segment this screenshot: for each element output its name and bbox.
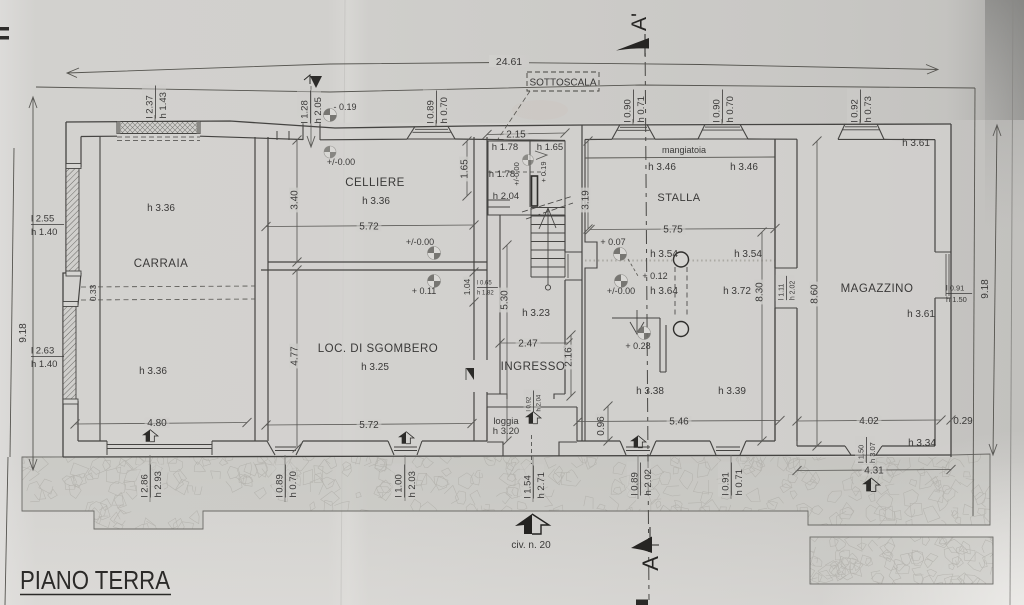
svg-text:0.96: 0.96 bbox=[596, 416, 607, 436]
svg-text:h 3.36: h 3.36 bbox=[139, 366, 167, 377]
svg-text:civ. n. 20: civ. n. 20 bbox=[511, 540, 551, 551]
south wall inner edge e bbox=[577, 440, 620, 442]
detached paved strip bottom-right tint bbox=[810, 537, 993, 584]
wall celliere-sgombero south face bbox=[261, 269, 487, 271]
boundary line far east bbox=[1010, 0, 1013, 605]
stalla west face bbox=[584, 139, 586, 230]
window W5 magazzino north (splayed opening) bbox=[838, 124, 884, 139]
opening label south window stalla bbox=[718, 461, 745, 496]
door stalla-magazzino jambs bbox=[775, 268, 797, 308]
opening label window W3 bbox=[620, 88, 647, 123]
entry arrow sgombero entry bbox=[398, 432, 414, 444]
wall sgombero-ingresso west face upper bbox=[473, 137, 475, 360]
door ingresso-stalla jambs bbox=[565, 252, 582, 280]
section line page-edge dash bbox=[636, 600, 648, 605]
svg-text:+ 0.12: + 0.12 bbox=[642, 271, 667, 281]
ingresso west face bbox=[499, 215, 501, 394]
opening label window W1 bbox=[142, 84, 169, 119]
carraia dashed beam lines bbox=[81, 286, 255, 300]
svg-text:+ 0.11: + 0.11 bbox=[412, 286, 437, 296]
wall celliere-sgombero north face bbox=[268, 261, 487, 263]
level datum datum 0.12 stalla bbox=[615, 275, 628, 288]
svg-text:h 1.40: h 1.40 bbox=[31, 227, 57, 238]
svg-text:h 3.54: h 3.54 bbox=[650, 249, 678, 260]
dimension 5.30 ingresso bbox=[499, 241, 512, 446]
carraia west face bbox=[99, 137, 101, 442]
bottom-right corner glare bbox=[820, 430, 1024, 605]
dimension 2.16 ingresso bbox=[563, 331, 576, 401]
opening label south door sgombero bbox=[391, 463, 418, 498]
north wall inner edge f bbox=[655, 138, 698, 140]
svg-text:h 2.04: h 2.04 bbox=[537, 394, 543, 411]
staircase break lines bbox=[522, 196, 573, 219]
svg-text:h 0.71: h 0.71 bbox=[636, 96, 647, 122]
level datum datum 0.07 stalla bbox=[614, 248, 627, 261]
svg-text:5.30: 5.30 bbox=[500, 290, 511, 310]
svg-text:1.04: 1.04 bbox=[462, 278, 472, 295]
north wall inner edge e bbox=[585, 138, 612, 140]
wall carraia-celliere east face bbox=[267, 137, 269, 441]
svg-text:l 1.28: l 1.28 bbox=[300, 100, 311, 123]
dimension 4.02 magazzino bbox=[793, 416, 946, 428]
svg-text:h 1.82: h 1.82 bbox=[477, 291, 494, 297]
understair wall stub bbox=[532, 176, 538, 206]
north wall inner edge h bbox=[884, 138, 935, 140]
loggia outline bbox=[487, 407, 577, 464]
svg-text:h 2.71: h 2.71 bbox=[536, 472, 547, 498]
exterior wall north outer edge bbox=[66, 121, 951, 128]
wall sgombero-ingresso east face lower bbox=[486, 392, 488, 441]
ground texture area outline bbox=[22, 454, 990, 529]
svg-text:l 2.55: l 2.55 bbox=[31, 214, 54, 225]
window W2 celliere north (splayed opening) bbox=[407, 127, 455, 140]
wall stalla-magazzino east face lower bbox=[796, 308, 798, 441]
stalla west lower jog bbox=[585, 230, 597, 441]
manger partition dashed bbox=[675, 267, 687, 318]
svg-text:CARRAIA: CARRAIA bbox=[134, 258, 189, 270]
section line A-A' bbox=[645, 34, 649, 600]
leader window W3 bbox=[632, 119, 634, 125]
svg-text:h 3.64: h 3.64 bbox=[650, 286, 678, 297]
svg-text:l 2.37: l 2.37 bbox=[145, 95, 156, 118]
wall stalla-magazzino east face upper bbox=[796, 139, 798, 268]
opening label south door stalla bbox=[627, 461, 654, 496]
svg-text:h 1.40: h 1.40 bbox=[31, 359, 57, 370]
svg-text:h 3.39: h 3.39 bbox=[718, 386, 746, 397]
svg-text:INGRESSO: INGRESSO bbox=[501, 361, 566, 373]
section arrow bottom bbox=[631, 537, 652, 554]
dimension 5.72 sgombero bbox=[262, 419, 477, 431]
svg-text:l 1.54: l 1.54 bbox=[523, 475, 534, 498]
svg-text:l 0.89: l 0.89 bbox=[275, 474, 286, 497]
svg-text:2.15: 2.15 bbox=[506, 130, 526, 141]
dimension 5.46 stalla bbox=[574, 416, 785, 428]
west wall inner edge lower bbox=[77, 401, 79, 441]
svg-text:h 0.73: h 0.73 bbox=[863, 96, 874, 122]
svg-text:- 0.19: - 0.19 bbox=[333, 102, 356, 112]
opening label south door magazzino bbox=[855, 436, 877, 464]
svg-text:24.61: 24.61 bbox=[496, 56, 522, 68]
faint pink smudge bbox=[512, 100, 568, 120]
opening label understair niche bbox=[477, 281, 498, 297]
svg-text:4.02: 4.02 bbox=[859, 416, 879, 427]
svg-text:A': A' bbox=[628, 13, 651, 31]
wall H1 west end cap bbox=[254, 262, 256, 270]
magazzino south door bbox=[845, 446, 882, 455]
wall V1 top jog bbox=[277, 131, 289, 140]
opening label window W2 bbox=[423, 89, 450, 124]
svg-text:h 0.70: h 0.70 bbox=[439, 97, 450, 123]
dimension 3.40 celliere bbox=[289, 136, 302, 267]
leader south door sgombero bbox=[404, 455, 406, 501]
column circle stalla bbox=[674, 252, 689, 267]
dimension 4.80 carraia bbox=[71, 418, 252, 430]
svg-text:+ 0.28: + 0.28 bbox=[625, 341, 650, 351]
svg-text:2.47: 2.47 bbox=[518, 339, 538, 350]
svg-text:+ 0.19: + 0.19 bbox=[539, 161, 548, 182]
south wall inner edge c bbox=[303, 440, 388, 442]
level datum datum 0.00 celliere top bbox=[324, 146, 336, 158]
dimension 2.15 sottoscala bbox=[483, 129, 570, 141]
svg-text:l 2.86: l 2.86 bbox=[140, 474, 151, 497]
boundary line north bbox=[36, 85, 975, 92]
wall sgombero-ingresso west face lower bbox=[473, 392, 475, 441]
manger partition walls bbox=[612, 318, 666, 372]
exterior wall west outer edge bbox=[63, 122, 66, 457]
svg-text:CELLIERE: CELLIERE bbox=[345, 177, 405, 189]
svg-text:+/-0.00: +/-0.00 bbox=[512, 162, 521, 186]
dimension 8.60 magazzino bbox=[809, 137, 822, 451]
svg-text:5.72: 5.72 bbox=[359, 420, 379, 431]
leader window W2 bbox=[435, 120, 437, 127]
svg-text:h 3.34: h 3.34 bbox=[908, 438, 936, 449]
magazzino south-west corner jog bbox=[796, 441, 798, 446]
window LW2 west hatched bbox=[63, 302, 78, 405]
boundary line west lower bbox=[5, 457, 8, 605]
dimension 2.47 ingresso bbox=[496, 338, 573, 350]
opening label door stalla-magazzino bbox=[776, 275, 797, 301]
dimension 5.72 celliere bbox=[262, 221, 479, 233]
svg-text:A: A bbox=[638, 556, 663, 571]
detached paved strip outline bbox=[810, 537, 993, 584]
north wall inner edge a bbox=[81, 135, 117, 137]
west wall inner edge mid bbox=[78, 273, 81, 305]
svg-text:h 2.04: h 2.04 bbox=[493, 191, 519, 202]
door D1 jambs bbox=[303, 123, 320, 140]
ground paving texture bbox=[799, 524, 1004, 595]
opening label window LW2 bbox=[31, 346, 64, 371]
svg-text:h 0.70: h 0.70 bbox=[725, 96, 736, 122]
south wall inner edge a bbox=[78, 440, 107, 442]
entry arrow carraia entry bbox=[142, 430, 158, 442]
svg-text:l 0.89: l 0.89 bbox=[426, 100, 437, 123]
wall ingresso-stalla east face bbox=[581, 125, 583, 441]
svg-text:PIANO TERRA: PIANO TERRA bbox=[20, 565, 171, 595]
svg-text:h 1.78: h 1.78 bbox=[492, 142, 518, 153]
opening label south window sgombero bbox=[272, 463, 299, 498]
svg-text:9.18: 9.18 bbox=[18, 323, 29, 343]
page edge shading top-right bbox=[985, 0, 1024, 230]
svg-text:h 3.72: h 3.72 bbox=[723, 286, 751, 297]
leader window W5 bbox=[859, 119, 861, 124]
title PIANO TERRA bbox=[20, 565, 171, 595]
entry arrow stalla entry bbox=[630, 436, 646, 448]
section bracket bottom bbox=[650, 527, 659, 545]
leader south door stalla bbox=[637, 455, 639, 499]
staircase up arrow bbox=[539, 208, 556, 290]
svg-text:h 3.36: h 3.36 bbox=[362, 196, 390, 207]
svg-text:SOTTOSCALA: SOTTOSCALA bbox=[529, 78, 596, 89]
opening label garage door bbox=[137, 463, 164, 498]
opening label window LW1 bbox=[31, 214, 64, 239]
south window sgombero (splayed) bbox=[267, 441, 303, 455]
svg-text:h 3.20: h 3.20 bbox=[493, 426, 519, 437]
dimension 24.61 overall bbox=[67, 55, 938, 78]
svg-text:h 2.02: h 2.02 bbox=[790, 281, 797, 301]
svg-text:h 3.23: h 3.23 bbox=[522, 308, 550, 319]
leader datum 0.12 bbox=[628, 259, 638, 276]
opening label south door loggia bbox=[520, 464, 547, 499]
svg-text:h 3.38: h 3.38 bbox=[636, 386, 664, 397]
svg-text:l 2.63: l 2.63 bbox=[31, 346, 54, 357]
dimension 9.18 west bbox=[18, 97, 37, 470]
south wall inner edge magazzino west bbox=[797, 445, 845, 447]
section arrow top bbox=[616, 38, 649, 51]
fold shadow line bbox=[341, 0, 345, 605]
exterior wall south outer edge bbox=[63, 455, 951, 457]
svg-text:h 2.05: h 2.05 bbox=[313, 97, 324, 123]
opening label window W4 bbox=[709, 88, 736, 123]
ground paving texture bbox=[9, 443, 1000, 538]
svg-text:h 3.46: h 3.46 bbox=[730, 162, 758, 173]
svg-text:+/-0.00: +/-0.00 bbox=[406, 237, 434, 247]
dimension 0.96 stalla door bbox=[596, 402, 613, 446]
svg-text:9.18: 9.18 bbox=[980, 279, 991, 299]
leader window W1 bbox=[154, 115, 156, 121]
open arrow right understair bbox=[535, 151, 547, 160]
dimension 4.31 magazzino south bbox=[793, 465, 956, 477]
level datum datum -0.19 bbox=[324, 109, 337, 122]
svg-text:h 3.07: h 3.07 bbox=[868, 442, 877, 463]
opening label door D1 bbox=[297, 89, 324, 124]
leader south window stalla bbox=[730, 455, 732, 499]
door sgombero-ingresso jamb marker bbox=[466, 368, 474, 380]
level datum datum 0.28 stalla low bbox=[638, 327, 651, 340]
svg-text:3.40: 3.40 bbox=[290, 190, 301, 210]
svg-text:+/-0.00: +/-0.00 bbox=[327, 157, 355, 167]
svg-text:5.75: 5.75 bbox=[663, 225, 683, 236]
opening label window east magazzino bbox=[946, 284, 972, 305]
svg-text:0.29: 0.29 bbox=[953, 416, 973, 427]
svg-text:l 0.92: l 0.92 bbox=[527, 396, 533, 411]
scan artifact bars top-left bbox=[0, 27, 9, 31]
svg-text:h 2.02: h 2.02 bbox=[643, 469, 654, 495]
svg-text:0.33: 0.33 bbox=[88, 284, 98, 301]
svg-text:+/-0.00: +/-0.00 bbox=[607, 286, 635, 296]
leader south door loggia bbox=[532, 457, 534, 502]
south door sgombero (splayed) bbox=[388, 441, 422, 455]
svg-text:h 3.54: h 3.54 bbox=[734, 249, 762, 260]
svg-text:l 0.90: l 0.90 bbox=[712, 99, 723, 122]
svg-text:h 3.61: h 3.61 bbox=[907, 309, 935, 320]
svg-text:h 2.03: h 2.03 bbox=[407, 471, 418, 497]
dimension 1.65 niche bbox=[459, 137, 472, 201]
svg-text:l 0.90: l 0.90 bbox=[623, 99, 634, 122]
window LW1 west hatched bbox=[66, 164, 81, 277]
wall ingresso-stalla west face upper bbox=[564, 215, 566, 252]
garage door carraia threshold bbox=[107, 441, 212, 455]
svg-text:mangiatoia: mangiatoia bbox=[662, 145, 706, 155]
west wall inner edge upper bbox=[80, 137, 82, 168]
door D1 axis bbox=[310, 86, 312, 146]
sottoscala callout box bbox=[498, 72, 599, 139]
svg-text:l 0.89: l 0.89 bbox=[630, 472, 641, 495]
entry arrow magazzino entry bbox=[862, 478, 880, 492]
east wall inner edge lower bbox=[934, 298, 936, 446]
exterior wall east outer edge bbox=[950, 124, 952, 457]
door D1 open arrow bbox=[307, 136, 315, 147]
svg-text:l 0.65: l 0.65 bbox=[477, 281, 492, 287]
opening label door ingresso-loggia bbox=[524, 390, 543, 413]
leader window W4 bbox=[721, 119, 723, 125]
opening label window W5 bbox=[847, 88, 874, 123]
svg-text:l 1.00: l 1.00 bbox=[394, 474, 405, 497]
north wall inner edge c bbox=[320, 138, 407, 141]
south window stalla (splayed) bbox=[710, 441, 746, 455]
window W4 stalla north 2 (splayed opening) bbox=[698, 124, 748, 139]
level datum datum 0.11 sgombero bbox=[428, 275, 441, 288]
wall stalla-magazzino west face upper bbox=[774, 139, 776, 268]
svg-text:1.65: 1.65 bbox=[460, 159, 471, 179]
south wall inner edge f bbox=[656, 440, 710, 442]
svg-text:h 0.70: h 0.70 bbox=[288, 471, 299, 497]
level datum datum 0.00 celliere bbox=[428, 247, 441, 260]
window W3 stalla north 1 (splayed opening) bbox=[612, 125, 655, 140]
entry arrow loggia entry bbox=[525, 412, 541, 424]
svg-text:l 0.92: l 0.92 bbox=[850, 99, 861, 122]
dimension 5.75 stalla bbox=[586, 224, 780, 236]
south door stalla (splayed) bbox=[620, 441, 656, 455]
staircase treads bbox=[531, 208, 565, 278]
south wall inner edge d bbox=[422, 440, 487, 442]
svg-text:l 0.91: l 0.91 bbox=[721, 472, 732, 495]
stalla east face bbox=[774, 139, 776, 441]
column circle 2 bbox=[674, 322, 689, 337]
door D1 flag symbol bbox=[304, 75, 310, 84]
svg-text:LOC. DI SGOMBERO: LOC. DI SGOMBERO bbox=[318, 343, 438, 355]
svg-text:+ 0.07: + 0.07 bbox=[600, 237, 625, 247]
north wall inner edge b bbox=[200, 136, 303, 139]
svg-text:8.60: 8.60 bbox=[810, 284, 821, 304]
south wall inner edge b bbox=[212, 440, 267, 442]
svg-text:h 3.46: h 3.46 bbox=[648, 162, 676, 173]
svg-text:5.72: 5.72 bbox=[359, 222, 379, 233]
svg-text:STALLA: STALLA bbox=[657, 192, 700, 204]
svg-text:8.30: 8.30 bbox=[755, 282, 766, 302]
paving edge dotted strip bbox=[585, 260, 775, 262]
dimension 3.19 stalla bbox=[580, 137, 593, 234]
svg-text:MAGAZZINO: MAGAZZINO bbox=[841, 283, 914, 295]
sottoscala compartments bbox=[488, 141, 565, 215]
dimension 8.30 stalla bbox=[754, 228, 767, 446]
ground texture base tint bbox=[22, 454, 990, 529]
wall ingresso-stalla west face lower bbox=[564, 280, 566, 394]
boundary line west bbox=[10, 148, 14, 457]
stair head open arrow down bbox=[630, 310, 644, 334]
civic number arrow bbox=[515, 514, 549, 534]
north wall inner edge g bbox=[748, 138, 797, 140]
window W1 hatched lintel bbox=[117, 122, 200, 141]
leader south door magazzino bbox=[865, 455, 867, 462]
svg-text:h 1.43: h 1.43 bbox=[158, 92, 169, 118]
dimension 1.04 niche bbox=[462, 268, 479, 307]
wall sgombero-ingresso east face upper bbox=[486, 137, 488, 360]
svg-text:h 0.71: h 0.71 bbox=[734, 469, 745, 495]
dimension 9.18 east bbox=[980, 125, 1001, 455]
leader south window sgombero bbox=[284, 455, 286, 502]
ingresso-loggia door jambs bbox=[487, 394, 565, 399]
wall stalla-magazzino west face lower bbox=[774, 308, 776, 441]
south wall inner edge g bbox=[746, 440, 775, 442]
mangiatoia edge bbox=[585, 157, 775, 158]
window east magazzino bbox=[935, 252, 951, 298]
leader garage door bbox=[149, 455, 151, 502]
building interior floor bbox=[63, 122, 951, 457]
svg-text:h 1.65: h 1.65 bbox=[537, 142, 563, 153]
svg-text:l 1.11: l 1.11 bbox=[779, 283, 786, 300]
boundary line east bbox=[973, 88, 975, 516]
lower sheet lightening bbox=[0, 460, 1024, 605]
svg-text:5.46: 5.46 bbox=[669, 417, 689, 428]
svg-text:h 3.61: h 3.61 bbox=[902, 138, 930, 149]
south wall inner edge magazzino east bbox=[882, 445, 935, 447]
svg-text:l 1.50: l 1.50 bbox=[857, 445, 866, 463]
svg-text:h 2.93: h 2.93 bbox=[153, 471, 164, 497]
svg-text:h 3.36: h 3.36 bbox=[147, 203, 175, 214]
svg-text:3.19: 3.19 bbox=[581, 190, 592, 210]
level datum datum understair bbox=[523, 155, 534, 166]
svg-text:h 3.25: h 3.25 bbox=[361, 362, 389, 373]
svg-text:4.77: 4.77 bbox=[290, 346, 301, 366]
svg-text:4.31: 4.31 bbox=[864, 466, 884, 477]
dimension 4.77 sgombero bbox=[289, 266, 302, 453]
svg-text:l 0.91: l 0.91 bbox=[946, 284, 964, 293]
east wall inner edge upper bbox=[934, 140, 936, 252]
north wall inner edge d bbox=[455, 139, 565, 141]
svg-text:h 1.50: h 1.50 bbox=[946, 295, 967, 304]
svg-text:4.80: 4.80 bbox=[147, 418, 167, 429]
wall carraia-celliere west face bbox=[254, 137, 256, 441]
